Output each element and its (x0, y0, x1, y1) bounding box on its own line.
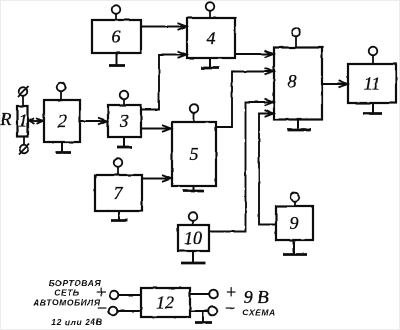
wire 2-3 arrow (80, 118, 107, 125)
block 4 (187, 18, 235, 58)
ground under block 9 (283, 240, 307, 255)
wire 6-4 arrow (141, 23, 187, 30)
svg-text:БОРТОВАЯ: БОРТОВАЯ (49, 278, 102, 288)
ground under block 5 (183, 186, 204, 191)
terminal on block 4 (206, 2, 215, 11)
block 7 (95, 175, 142, 211)
ground under block 11 (363, 103, 382, 114)
ground under block 6 (109, 53, 125, 66)
block 2 (44, 100, 80, 142)
svg-text:2: 2 (58, 111, 67, 131)
svg-text:−: − (224, 298, 236, 318)
svg-text:6: 6 (112, 27, 121, 47)
ground under block 3 (117, 137, 132, 147)
ground under block 4 (201, 58, 219, 68)
svg-text:8: 8 (288, 71, 297, 91)
svg-text:11: 11 (364, 74, 381, 94)
ground under block 10 (181, 251, 205, 263)
svg-text:7: 7 (114, 183, 124, 203)
block 12 (141, 288, 190, 317)
wire 4-8 arrow (235, 51, 274, 58)
svg-text:СХЕМА: СХЕМА (242, 308, 276, 318)
svg-text:1: 1 (19, 111, 28, 131)
svg-text:5: 5 (190, 144, 199, 164)
terminal on block 7 (114, 158, 123, 167)
wire + output of block 12 (190, 290, 218, 299)
ground under block 2 (56, 142, 71, 153)
wire 8-11 arrow (322, 81, 348, 88)
block 6 (92, 20, 141, 53)
terminal on block 2 (57, 83, 66, 92)
ground under block 7 (111, 211, 128, 221)
wire 1-2 double arrow (29, 118, 43, 124)
svg-text:−: − (96, 298, 108, 318)
terminal on block 8 (292, 28, 301, 37)
svg-text:R: R (0, 109, 12, 129)
terminal on block 10 (189, 212, 198, 221)
svg-text:9 В: 9 В (244, 287, 269, 307)
block 1 (R) (18, 106, 28, 137)
wire 5-8 (right, up, right) (216, 68, 274, 127)
wire - output of block 12 (190, 307, 217, 316)
wire 10-8 (right, up, right) (209, 99, 274, 232)
svg-text:10: 10 (184, 228, 202, 248)
svg-text:4: 4 (207, 28, 216, 48)
wire - input to block 12 (109, 307, 141, 316)
svg-text:12: 12 (156, 293, 174, 313)
terminal on block 11 (369, 47, 378, 56)
terminal on block 5 (190, 104, 199, 113)
wire 3-5 arrow (141, 125, 171, 132)
wire 7-5 arrow (142, 175, 171, 182)
ground under block 8 (287, 120, 311, 130)
terminal on block 3 (120, 91, 129, 100)
svg-text:12 или 24В: 12 или 24В (51, 317, 102, 327)
block 11 (348, 64, 396, 103)
block 3 (108, 105, 141, 137)
terminal on block 9 (291, 193, 300, 202)
svg-text:3: 3 (119, 111, 129, 131)
terminal on block 1 bottom (slashed circle) (20, 145, 29, 154)
block 8 (274, 48, 322, 120)
block 9 (276, 206, 313, 240)
wire 3-4 (up and right) (141, 51, 187, 109)
svg-text:СЕТЬ: СЕТЬ (54, 288, 79, 298)
svg-text:9: 9 (290, 213, 299, 233)
block 10 (178, 225, 209, 251)
ground on block 12 output minus line (195, 311, 212, 323)
terminal on block 6 (112, 5, 121, 14)
wire + input to block 12 (110, 291, 141, 300)
svg-text:АВТОМОБИЛЯ: АВТОМОБИЛЯ (32, 298, 100, 308)
block 5 (172, 122, 216, 186)
wire 9-8 (left, up, right) (259, 110, 276, 224)
terminal on block 1 top (slashed circle) (19, 87, 28, 96)
